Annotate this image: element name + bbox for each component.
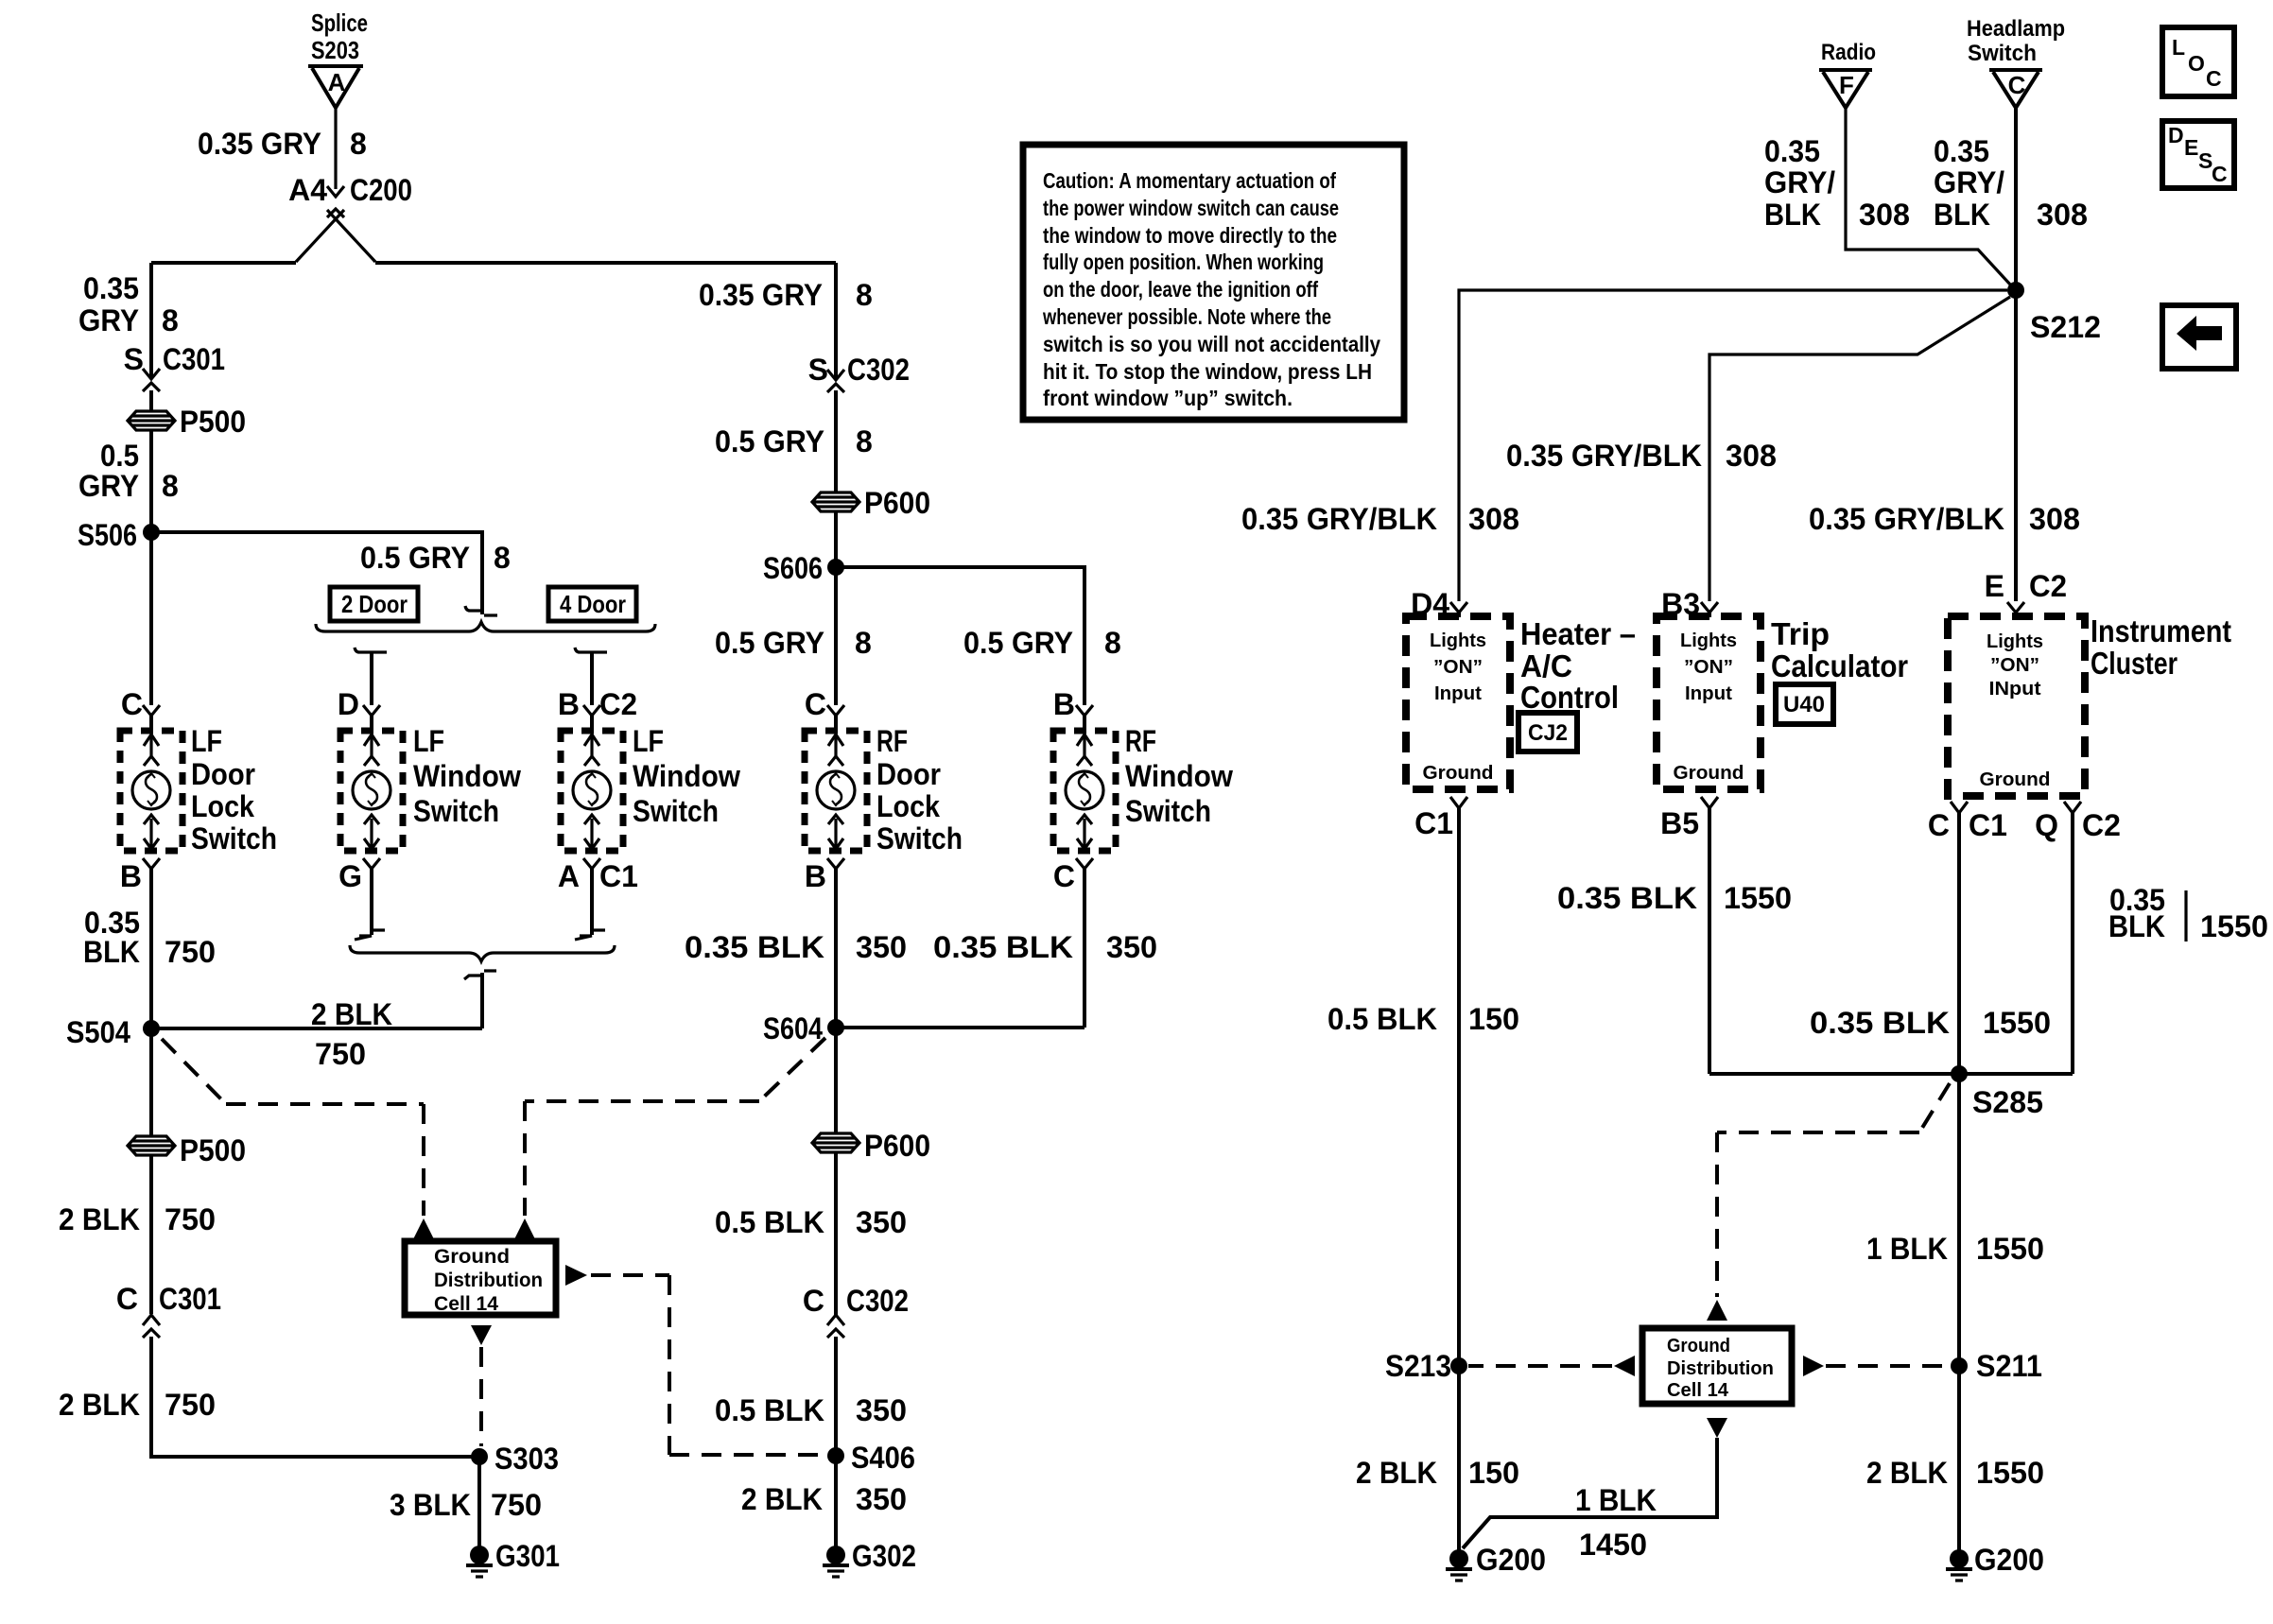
svg-text:8: 8 <box>350 127 367 161</box>
wire label 0.5 BLK 150 <box>1327 1002 1519 1036</box>
wire label 0.5 GRY 8 at RF window <box>963 626 1121 660</box>
hidden wire ground distribution to S406 <box>591 1275 826 1455</box>
LF window switch (2 door) bottom pin <box>338 858 380 893</box>
LF window switch (4 door) label <box>633 724 740 828</box>
svg-text:S506: S506 <box>78 518 137 552</box>
arrowhead to S211 <box>1803 1356 1824 1376</box>
wire label 0.5 BLK 350 lower <box>715 1393 907 1427</box>
svg-text:C1: C1 <box>599 859 638 893</box>
svg-text:C: C <box>121 687 143 721</box>
svg-text:0.35 BLK: 0.35 BLK <box>933 930 1073 964</box>
svg-text:308: 308 <box>2029 502 2080 536</box>
svg-text:0.5 GRY: 0.5 GRY <box>715 626 824 660</box>
svg-text:C: C <box>805 687 826 721</box>
heater AC pin D4 <box>1411 587 1467 621</box>
splice S504 <box>66 1015 160 1049</box>
svg-text:A4: A4 <box>288 173 327 207</box>
wire C301 to S303 <box>151 1337 479 1457</box>
svg-text:G200: G200 <box>1476 1543 1546 1577</box>
wire S506 to LF door lock switch <box>149 532 153 705</box>
svg-text:0.35 GRY: 0.35 GRY <box>198 127 321 161</box>
svg-text:Heater –: Heater – <box>1520 616 1636 651</box>
svg-text:S606: S606 <box>763 551 823 585</box>
wire bus to RF column <box>834 263 838 378</box>
svg-text:350: 350 <box>1106 930 1157 964</box>
svg-text:Distribution: Distribution <box>434 1270 543 1291</box>
ground G200 right <box>1946 1543 2044 1581</box>
svg-text:150: 150 <box>1468 1002 1519 1036</box>
svg-text:”ON”: ”ON” <box>1433 657 1483 678</box>
wire S212 to heater AC column <box>1459 290 2007 601</box>
svg-text:GRY/: GRY/ <box>1764 165 1835 199</box>
svg-text:C: C <box>803 1284 824 1318</box>
svg-text:the power window switch can ca: the power window switch can cause <box>1043 196 1339 220</box>
connector C302 pin C lower <box>803 1284 909 1338</box>
svg-text:8: 8 <box>162 303 179 337</box>
svg-text:Window: Window <box>413 759 521 793</box>
svg-text:308: 308 <box>2037 198 2088 232</box>
svg-text:0.35 BLK: 0.35 BLK <box>685 930 824 964</box>
svg-text:Ground: Ground <box>1667 1336 1730 1356</box>
svg-text:4 Door: 4 Door <box>560 590 626 618</box>
svg-text:Cluster: Cluster <box>2091 646 2178 681</box>
svg-text:C: C <box>2206 66 2222 91</box>
cell reference CJ2 <box>1518 713 1577 752</box>
hidden wire S504 to ground distribution <box>162 1039 424 1216</box>
svg-text:A/C: A/C <box>1520 648 1572 683</box>
svg-text:RF: RF <box>876 724 908 758</box>
svg-text:Switch: Switch <box>1968 41 2037 66</box>
svg-text:C301: C301 <box>163 342 225 376</box>
svg-text:2 BLK: 2 BLK <box>1866 1456 1948 1490</box>
RF window switch top pin <box>1053 687 1093 732</box>
ground G200 left <box>1446 1543 1546 1581</box>
svg-text:Lights: Lights <box>1680 631 1737 651</box>
RF door lock switch top pin <box>805 687 844 732</box>
svg-text:Window: Window <box>1125 759 1233 793</box>
wire S504 bus <box>151 1027 482 1030</box>
splice S406 <box>827 1441 915 1475</box>
wire label 1 BLK 1450 <box>1575 1483 1657 1562</box>
wire label 0.35 GRY 8 <box>198 127 367 161</box>
ground distribution cell 14 box right <box>1642 1328 1792 1404</box>
instrument cluster label <box>2091 613 2231 681</box>
LF window switch (2 door) <box>340 731 403 851</box>
svg-text:8: 8 <box>856 424 873 458</box>
wire label 0.35 GRY/BLK 308 headlamp <box>1934 134 2088 232</box>
wire S285 bus <box>1709 1072 2073 1076</box>
headlamp switch label <box>1967 16 2065 66</box>
wire S606 branch to RF window switch <box>836 567 1084 705</box>
arrowhead below ground distribution right <box>1707 1418 1727 1438</box>
svg-text:G301: G301 <box>495 1539 560 1573</box>
wire S203 to C200 <box>334 106 337 189</box>
grommet P600 upper <box>812 486 930 520</box>
svg-text:Ground: Ground <box>1423 763 1494 784</box>
svg-text:F: F <box>1839 71 1854 99</box>
wire S212 to trip calculator column <box>1709 297 2010 601</box>
arrowhead into ground distribution <box>1707 1300 1727 1321</box>
ground G301 <box>466 1539 560 1577</box>
connector C301 pin C lower <box>116 1282 221 1338</box>
svg-text:C: C <box>116 1282 138 1316</box>
svg-text:1 BLK: 1 BLK <box>1575 1483 1657 1517</box>
instrument cluster pin E C2 <box>1985 569 2067 617</box>
svg-text:C301: C301 <box>159 1282 221 1316</box>
svg-text:0.5 GRY: 0.5 GRY <box>715 424 824 458</box>
heater AC lights on input box <box>1406 616 1510 789</box>
svg-text:switch is so you will not acci: switch is so you will not accidentally <box>1043 332 1380 356</box>
wire bus left segment <box>151 261 296 265</box>
svg-text:750: 750 <box>491 1488 542 1522</box>
svg-text:308: 308 <box>1859 198 1910 232</box>
svg-text:Headlamp: Headlamp <box>1967 16 2065 42</box>
svg-text:Input: Input <box>1434 683 1482 704</box>
svg-text:LF: LF <box>413 724 444 758</box>
svg-text:Switch: Switch <box>876 821 963 855</box>
svg-text:on the door, leave the ignitio: on the door, leave the ignition off <box>1043 277 1318 302</box>
svg-text:D: D <box>338 687 359 721</box>
svg-text:0.35 BLK: 0.35 BLK <box>1810 1006 1950 1040</box>
svg-text:0.35: 0.35 <box>83 271 139 305</box>
arrowhead to S213 <box>1614 1356 1635 1376</box>
wire LF window switch G down <box>355 869 385 940</box>
wire C2 cluster to S285 bus <box>2071 813 2074 1074</box>
svg-text:Switch: Switch <box>191 821 277 855</box>
back arrow box <box>2162 305 2236 369</box>
splice S604 <box>763 1011 844 1045</box>
svg-text:S604: S604 <box>763 1011 823 1045</box>
svg-text:750: 750 <box>165 1202 216 1236</box>
svg-text:Q: Q <box>2035 808 2058 842</box>
svg-text:C2: C2 <box>2029 569 2067 603</box>
hidden wire to S211 <box>1826 1364 1950 1368</box>
wire P600 to C302 <box>834 1152 838 1315</box>
wire bus right segment <box>375 261 836 265</box>
svg-text:S203: S203 <box>311 36 359 64</box>
hidden wire S285 to ground distribution <box>1717 1083 1950 1297</box>
svg-text:fully open position. When work: fully open position. When working <box>1043 250 1324 274</box>
svg-text:GRY/: GRY/ <box>1934 165 2004 199</box>
svg-text:hit it. To stop the window, pr: hit it. To stop the window, press LH <box>1043 359 1372 384</box>
svg-text:Ground: Ground <box>1674 763 1744 784</box>
wire S606 to RF door lock switch <box>834 567 838 705</box>
svg-text:1550: 1550 <box>1976 1456 2044 1490</box>
option brace <box>316 622 655 631</box>
splice S506 <box>78 518 160 552</box>
splice S211 <box>1951 1349 2042 1383</box>
wire label 0.5 GRY 8 <box>78 439 179 503</box>
svg-text:RF: RF <box>1125 724 1156 758</box>
wire label 0.5 GRY 8 RF <box>715 424 873 458</box>
wire RF window C to S604 bus <box>1083 869 1086 1028</box>
svg-text:308: 308 <box>1726 439 1777 473</box>
wire headlamp switch down through S212 <box>2014 108 2018 601</box>
wire S604 bus <box>836 1026 1084 1029</box>
hidden wire ground distribution to S303 <box>479 1347 483 1446</box>
svg-text:S211: S211 <box>1976 1349 2042 1383</box>
svg-text:LF: LF <box>633 724 664 758</box>
wire label 0.35 GRY 8 RF <box>699 278 873 312</box>
svg-text:0.35 GRY/BLK: 0.35 GRY/BLK <box>1809 502 2004 536</box>
option box 4 Door <box>548 587 636 621</box>
trip calculator label <box>1771 616 1908 683</box>
svg-text:Control: Control <box>1520 680 1619 715</box>
svg-text:BLK: BLK <box>1934 198 1990 232</box>
connector C200 pin A4 <box>288 173 412 217</box>
svg-text:Window: Window <box>633 759 740 793</box>
LF door lock switch top pin <box>121 687 160 732</box>
svg-text:BLK: BLK <box>83 935 140 969</box>
cell reference U40 <box>1776 684 1833 724</box>
LF window switch (4 door) bottom pin <box>558 858 638 893</box>
RF window switch <box>1053 731 1116 851</box>
wire radio to S212 <box>1846 108 2011 285</box>
svg-text:O: O <box>2188 51 2205 76</box>
wire label 2 BLK 750 <box>59 1202 216 1236</box>
svg-text:0.35: 0.35 <box>1764 134 1820 168</box>
svg-text:BLK: BLK <box>1764 198 1821 232</box>
svg-text:S504: S504 <box>66 1015 130 1049</box>
wire stub 4 door to pins B C2 <box>558 648 637 732</box>
svg-text:”ON”: ”ON” <box>1684 657 1733 678</box>
wire label 0.5 GRY 8 at RF door lock <box>715 626 872 660</box>
svg-text:C: C <box>2008 71 2026 99</box>
svg-text:S: S <box>124 342 144 376</box>
svg-text:350: 350 <box>856 1393 907 1427</box>
svg-text:0.5 GRY: 0.5 GRY <box>360 541 470 575</box>
svg-text:8: 8 <box>494 541 511 575</box>
wire C1 cluster to G200 right <box>1957 813 1961 1551</box>
svg-text:B: B <box>558 687 580 721</box>
wire label 0.35 GRY 8 left column <box>78 271 179 337</box>
svg-text:G200: G200 <box>1974 1543 2044 1577</box>
svg-text:P600: P600 <box>864 486 930 520</box>
svg-text:8: 8 <box>855 626 872 660</box>
RF door lock switch <box>805 731 867 851</box>
wire label 0.35 BLK 350 left <box>685 930 907 964</box>
svg-text:750: 750 <box>165 1388 216 1422</box>
splice S212 <box>2007 282 2101 344</box>
svg-text:D: D <box>2168 123 2184 147</box>
svg-text:P500: P500 <box>180 1133 246 1167</box>
wire LF door lock B to S504 <box>149 869 153 1028</box>
wire label 0.35 BLK 350 right <box>933 930 1157 964</box>
splice S606 <box>763 551 844 585</box>
svg-text:front window ”up” switch.: front window ”up” switch. <box>1043 386 1293 410</box>
svg-text:C2: C2 <box>599 687 637 721</box>
wire label 2 BLK 1550 <box>1866 1456 2044 1490</box>
RF door lock switch bottom pin <box>805 858 844 893</box>
svg-text:Trip: Trip <box>1771 616 1830 651</box>
wire C1 heater to G200 <box>1457 808 1461 1551</box>
splice S203 label <box>311 9 368 64</box>
trip calculator pin B3 <box>1661 587 1718 621</box>
svg-text:750: 750 <box>315 1037 366 1071</box>
svg-text:CJ2: CJ2 <box>1528 720 1568 746</box>
svg-text:B: B <box>805 859 826 893</box>
svg-text:750: 750 <box>165 935 216 969</box>
wire S504 down to P500 <box>149 1028 153 1136</box>
RF window switch label <box>1125 724 1233 828</box>
lower option brace <box>350 945 615 961</box>
caution note text <box>1042 168 1380 410</box>
svg-text:S285: S285 <box>1972 1085 2043 1119</box>
wire stub 2 door to pin D <box>338 648 387 732</box>
svg-text:G: G <box>338 859 362 893</box>
wire label 0.5 GRY 8 at brace <box>360 541 511 575</box>
svg-text:Caution: A momentary actuation: Caution: A momentary actuation of <box>1043 168 1336 193</box>
hidden wire to S213 <box>1468 1364 1612 1368</box>
heater AC control label <box>1520 616 1636 715</box>
svg-text:350: 350 <box>856 1205 907 1239</box>
svg-text:2 BLK: 2 BLK <box>311 997 392 1031</box>
heater AC pin C1 bottom <box>1414 797 1467 840</box>
svg-text:S: S <box>808 353 828 387</box>
svg-text:Lights: Lights <box>1430 631 1486 651</box>
svg-text:P600: P600 <box>864 1129 930 1163</box>
caution note box <box>1023 145 1404 420</box>
splice S203 triangle A <box>308 66 363 108</box>
trip calculator pin B5 bottom <box>1660 797 1718 840</box>
wire label 0.35 BLK 1550 trip <box>1557 881 1792 915</box>
ground G302 <box>823 1539 916 1577</box>
svg-text:8: 8 <box>1104 626 1121 660</box>
wire brace to S504 bus <box>464 971 496 1028</box>
splice S303 <box>471 1442 559 1476</box>
svg-text:C: C <box>1053 859 1075 893</box>
svg-text:0.35 GRY/BLK: 0.35 GRY/BLK <box>1506 439 1702 473</box>
svg-text:Cell 14: Cell 14 <box>434 1293 498 1315</box>
wire label 0.35 GRY/BLK 308 cluster <box>1809 502 2080 536</box>
wire left column upper <box>149 263 153 378</box>
wire S303 to G301 <box>477 1457 481 1548</box>
wire S506 to option brace <box>151 532 497 615</box>
svg-text:C302: C302 <box>847 353 910 387</box>
svg-text:Lights: Lights <box>1987 631 2043 652</box>
svg-text:S303: S303 <box>495 1442 559 1476</box>
svg-text:350: 350 <box>856 1482 907 1516</box>
grommet P500 lower <box>128 1133 246 1167</box>
wire ground distribution to G200 <box>1463 1438 1717 1548</box>
svg-text:E: E <box>2184 135 2198 160</box>
grommet P600 lower <box>812 1129 930 1163</box>
arrowhead below ground distribution left <box>471 1325 492 1345</box>
wire C302 to S406 <box>834 1337 838 1456</box>
wire B5 trip to S285 bus <box>1708 808 1711 1074</box>
hidden wire S604 to ground distribution <box>525 1038 825 1216</box>
svg-text:Distribution: Distribution <box>1667 1358 1774 1379</box>
arrowhead into ground distribution right <box>514 1218 535 1239</box>
wire label 0.35 GRY/BLK 308 trip <box>1506 439 1777 473</box>
svg-text:2 BLK: 2 BLK <box>59 1202 140 1236</box>
svg-text:C1: C1 <box>1969 808 2007 842</box>
svg-text:150: 150 <box>1468 1456 1519 1490</box>
svg-text:whenever possible. Note where: whenever possible. Note where the <box>1042 304 1331 329</box>
svg-text:C200: C200 <box>350 173 412 207</box>
LF window switch (2 door) label <box>413 724 521 828</box>
wire label 0.35 BLK 1550 cluster C1 <box>1810 1006 2051 1040</box>
svg-text:S212: S212 <box>2030 310 2101 344</box>
wire S406 to G302 <box>834 1456 838 1548</box>
wire label 2 BLK 750 horizontal <box>311 997 392 1071</box>
svg-text:C: C <box>1928 808 1950 842</box>
wire label 3 BLK 750 <box>390 1488 542 1522</box>
svg-text:1450: 1450 <box>1579 1528 1647 1562</box>
wire crossover below C200 <box>296 210 375 262</box>
svg-text:C: C <box>2212 162 2228 186</box>
svg-text:350: 350 <box>856 930 907 964</box>
grommet P500 upper <box>128 405 246 439</box>
svg-text:Door: Door <box>876 757 941 791</box>
svg-text:0.35 GRY: 0.35 GRY <box>699 278 823 312</box>
wire label 2 BLK 150 <box>1356 1456 1519 1490</box>
svg-text:1 BLK: 1 BLK <box>1866 1232 1948 1266</box>
wire label 0.35 BLK 750 <box>83 906 216 969</box>
wire LF window switch C1 down <box>575 869 605 940</box>
RF door lock switch label <box>876 724 963 855</box>
svg-text:B5: B5 <box>1660 806 1699 840</box>
svg-text:BLK: BLK <box>2108 909 2165 943</box>
option box 2 Door <box>330 587 418 621</box>
svg-text:G302: G302 <box>852 1539 916 1573</box>
svg-text:P500: P500 <box>180 405 246 439</box>
svg-text:C1: C1 <box>1414 806 1453 840</box>
svg-text:0.5: 0.5 <box>100 439 139 473</box>
LF door lock switch <box>120 731 182 851</box>
wire S604 down to P600 <box>834 1028 838 1132</box>
headlamp switch triangle C <box>1989 70 2042 108</box>
svg-text:Switch: Switch <box>633 794 719 828</box>
wire label 2 BLK 350 <box>741 1482 907 1516</box>
splice S213 <box>1385 1349 1467 1383</box>
svg-text:1550: 1550 <box>1724 881 1792 915</box>
instrument cluster pins C C1 and Q C2 bottom <box>1928 802 2121 842</box>
svg-text:C2: C2 <box>2082 808 2121 842</box>
svg-text:2 BLK: 2 BLK <box>59 1388 140 1422</box>
svg-text:Door: Door <box>191 757 255 791</box>
svg-text:0.5 BLK: 0.5 BLK <box>1327 1002 1437 1036</box>
svg-text:Switch: Switch <box>413 794 499 828</box>
connector C301 pin S <box>124 342 225 410</box>
LF door lock switch label <box>191 724 277 855</box>
svg-text:0.5 BLK: 0.5 BLK <box>715 1393 824 1427</box>
svg-text:Input: Input <box>1685 683 1732 704</box>
svg-text:Splice: Splice <box>311 9 368 37</box>
svg-text:A: A <box>558 859 580 893</box>
svg-text:Lock: Lock <box>876 789 940 823</box>
svg-text:0.5 GRY: 0.5 GRY <box>963 626 1073 660</box>
svg-text:Instrument: Instrument <box>2091 613 2231 648</box>
svg-text:2 BLK: 2 BLK <box>1356 1456 1437 1490</box>
LOC box <box>2162 27 2234 96</box>
svg-text:Cell 14: Cell 14 <box>1667 1380 1729 1401</box>
DESC box <box>2162 121 2234 188</box>
svg-text:1550: 1550 <box>1983 1006 2051 1040</box>
svg-text:GRY: GRY <box>78 469 139 503</box>
wire label 0.35 GRY/BLK 308 radio <box>1764 134 1910 232</box>
wire label 2 BLK 750 lower <box>59 1388 216 1422</box>
svg-text:308: 308 <box>1468 502 1519 536</box>
svg-text:1550: 1550 <box>2200 909 2268 943</box>
connector C302 pin S <box>808 353 910 492</box>
wire label 1 BLK 1550 <box>1866 1232 2044 1266</box>
svg-text:GRY: GRY <box>78 303 139 337</box>
wire label 0.5 BLK 350 <box>715 1205 907 1239</box>
svg-text:INput: INput <box>1989 679 2041 700</box>
radio label <box>1821 40 1876 65</box>
svg-text:Calculator: Calculator <box>1771 648 1908 683</box>
